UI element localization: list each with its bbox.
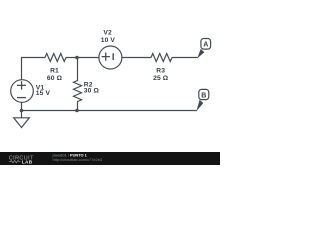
svg-text:15 V: 15 V [36,90,51,97]
svg-text:V2: V2 [103,29,112,36]
voltage source V1 [11,80,34,103]
wire from V1 negative terminal down to ground [21,102,23,118]
svg-text:A: A [203,42,208,49]
svg-text:60 Ω: 60 Ω [47,75,63,82]
svg-text:R3: R3 [156,67,165,74]
ground [14,118,30,128]
wire from V2 to R3 [122,57,151,59]
svg-text:LAB: LAB [22,160,33,165]
junction node at bottom of R2 [75,109,79,113]
svg-text:R1: R1 [50,67,59,74]
wire from V1 positive terminal up and right to R1 [22,58,46,80]
svg-text:http://circuitlab.com/c77e2e3: http://circuitlab.com/c77e2e3 [53,157,103,162]
node B flag [196,89,208,111]
resistor R3 [151,54,172,62]
bottom rail wire to node B [22,110,197,112]
resistor R2 [74,58,82,111]
junction node at V1 bottom on ground rail [20,109,24,113]
svg-text:25 Ω: 25 Ω [153,75,169,82]
svg-text:B: B [201,92,206,99]
svg-text:10 V: 10 V [101,37,116,44]
junction node at top of R2 [75,56,79,60]
resistor R1 [45,54,66,62]
watermark bar [0,152,220,165]
svg-text:30 Ω: 30 Ω [84,88,100,95]
wire from R3 to node A [172,57,198,59]
node A flag [197,39,210,59]
circuitlab logo [9,155,34,164]
voltage source V2 [99,46,122,69]
wire from R1 to top junction node [66,57,99,59]
